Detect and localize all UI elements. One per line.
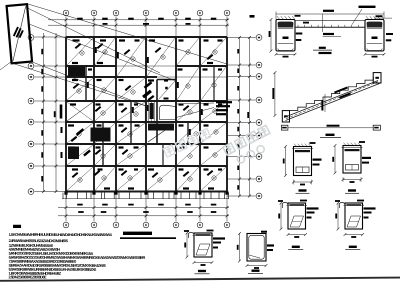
svg-text:2.5BMZS6868REZ8508D8E: 2.5BMZS6868REZ8508D8E [9,274,48,279]
beam section XL3 [184,230,225,274]
left axis bubbles A-G [28,35,34,195]
dimension tick marks [42,18,251,217]
dimension number texts [41,18,249,213]
bottom axis bubbles 1-7 [63,222,230,228]
beam text labels [60,39,223,189]
slab number bubbles [77,50,218,182]
beam section XL1 [278,200,319,250]
stair section leader [176,101,232,117]
axis grid and dimension lines [35,17,256,222]
notes text block [9,225,146,280]
right axis bubbles [256,35,262,199]
stair flight dims [272,71,380,137]
beam section XL2 [335,200,376,250]
stair flight section [282,73,381,122]
bottom border line [0,277,400,282]
wall stubs below plan [63,192,229,199]
svg-text:1.SKGHM5WA4H8RHMUUMDM5UH4WD4H4: 1.SKGHM5WA4H8RHMUUMDM5UH4WD4H44GHDH5KNUK… [9,232,113,237]
section 1-1 beams and slab [276,16,392,51]
detail callout rotated rectangle [7,4,32,63]
beam section L1 bottom [237,231,274,274]
stair core hatch [68,67,176,159]
watermark [223,125,276,167]
callout leader lines [0,4,227,106]
top axis bubbles 1-7 [63,10,230,16]
beam section TL1 [283,142,322,193]
level mark [250,15,255,18]
plan thick beam lines [66,37,227,192]
plan title [120,232,176,239]
beam section TL2 [332,141,371,193]
slab diagonal span lines [67,38,226,191]
section 1-1 dimensions and labels [269,6,393,58]
